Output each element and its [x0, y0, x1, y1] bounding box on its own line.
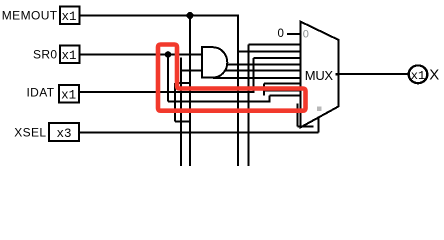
wire IDAT riser at x=253.5 — [253, 58, 255, 92]
svg-text:x1: x1 — [61, 89, 76, 103]
mux select marker — [317, 107, 322, 112]
svg-text:x1: x1 — [411, 69, 425, 83]
wire bridge y=121.4 — [175, 120, 190, 122]
wire MUX input rung 7 — [264, 83, 300, 85]
wire vertical from MEMOUT junction to bottom — [189, 16, 191, 167]
wire SR0 horizontal — [79, 54, 203, 56]
red highlight annotation — [158, 45, 306, 111]
wire vertical x=238 from MEMOUT bend to bottom — [237, 16, 239, 167]
svg-text:0: 0 — [303, 29, 309, 41]
wire B2 step vertical — [269, 95, 271, 101]
svg-text:x1: x1 — [61, 49, 76, 63]
pin box SR0 x1 — [60, 46, 80, 64]
mux output pin tick — [335, 73, 338, 76]
wire IDAT horizontal — [79, 91, 255, 93]
node junction dot MEMOUT — [187, 12, 194, 19]
wire MUX input rung 1 — [249, 44, 300, 46]
svg-text:x3: x3 — [56, 127, 71, 141]
wire U vertical near MUX bottom — [297, 104, 299, 127]
op gate: AND gate — [202, 47, 227, 77]
wire vertical x=264 — [263, 84, 265, 96]
wire U horizontal near MUX bottom — [298, 126, 314, 128]
wire MUX input rung 8 under red — [264, 90, 300, 92]
wire MUX input rung 3 — [254, 57, 301, 59]
wire vertical x=181 to bottom — [180, 58, 182, 167]
wire MUX input rung 2 from MEMOUT — [238, 50, 300, 52]
wire MUX output — [340, 73, 409, 75]
svg-text:x1: x1 — [61, 10, 76, 24]
svg-text:X: X — [429, 67, 439, 84]
wire B2 upper into MUX — [270, 94, 301, 96]
svg-text:MUX: MUX — [305, 68, 334, 83]
svg-text:SR0: SR0 — [33, 48, 58, 62]
pin box MEMOUT x1 — [60, 7, 80, 25]
wire MUX select stub — [318, 118, 320, 133]
wire AND output rung 4 — [227, 63, 300, 65]
svg-text:IDAT: IDAT — [26, 86, 54, 100]
svg-text:MEMOUT: MEMOUT — [2, 9, 58, 23]
wire vertical x=175 — [174, 83, 176, 121]
wire constant 0 stub — [287, 33, 300, 35]
svg-text:0: 0 — [278, 28, 284, 40]
wire MUX input rung 5 under gate — [181, 70, 300, 72]
wire XSEL horizontal — [80, 132, 319, 134]
wire bridge y=83.2 — [175, 82, 191, 84]
pin box XSEL x3 — [49, 123, 79, 141]
wire vertical x=248.6 to bottom — [248, 45, 250, 166]
output pin X circle — [409, 65, 428, 83]
node junction dot SR0 — [165, 51, 172, 58]
wire vertical from SR0 junction down — [167, 55, 169, 102]
pin box IDAT x1 — [59, 85, 79, 103]
svg-text:XSEL: XSEL — [14, 125, 46, 139]
wire MEMOUT horizontal — [79, 15, 239, 17]
wire MUX input rung 6 — [213, 77, 300, 79]
wire B2 horizontal y=101.4 — [168, 100, 271, 102]
mux body — [300, 22, 338, 128]
